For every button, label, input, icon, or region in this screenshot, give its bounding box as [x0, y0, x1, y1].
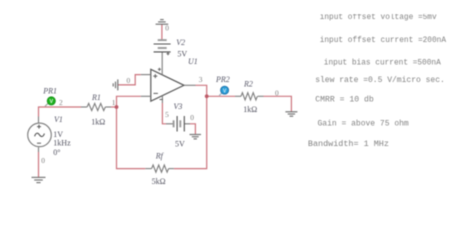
ground below V1 [32, 177, 46, 182]
svg-text:V1: V1 [54, 115, 63, 124]
svg-text:0: 0 [190, 113, 194, 122]
plus mark inside [153, 74, 157, 78]
svg-text:0: 0 [165, 23, 169, 32]
minus mark inside [154, 92, 158, 94]
wire ground to noninverting input [118, 75, 141, 85]
svg-text:0: 0 [127, 76, 131, 85]
plus mark supply [158, 68, 161, 71]
svg-text:CMRR = 10 db: CMRR = 10 db [315, 94, 374, 104]
battery V2 [154, 40, 171, 55]
wire junction to R2 [207, 95, 235, 97]
junction node 1 dot [115, 105, 119, 109]
output pin [184, 84, 196, 86]
svg-text:PR1: PR1 [42, 87, 57, 96]
svg-text:0°: 0° [53, 148, 60, 157]
svg-text:1kΩ: 1kΩ [243, 105, 257, 114]
source V1 [28, 117, 52, 153]
svg-text:5V: 5V [175, 139, 185, 148]
svg-text:R1: R1 [91, 93, 101, 102]
wire V1 bottom to ground [38, 152, 40, 177]
ground below R2 [285, 112, 297, 116]
svg-text:input offset voltage =5mv: input offset voltage =5mv [320, 14, 437, 22]
wire feedback down and to Rf [117, 107, 146, 169]
input pin + [141, 74, 151, 76]
svg-text:5V: 5V [177, 49, 187, 58]
svg-text:V: V [223, 88, 227, 94]
svg-text:Rf: Rf [155, 152, 165, 161]
svg-text:1kHz: 1kHz [53, 139, 71, 148]
neg supply pin [161, 96, 163, 103]
svg-text:5: 5 [165, 110, 169, 119]
svg-text:Gain = above 75 ohm: Gain = above 75 ohm [318, 120, 409, 129]
svg-text:3: 3 [199, 75, 203, 84]
svg-text:V: V [49, 99, 53, 105]
wire Rf right up to output junction [174, 96, 207, 168]
svg-text:V3: V3 [174, 102, 183, 111]
wire R2 to ground corner [264, 96, 292, 111]
ground right of V3 [190, 135, 202, 139]
wire top ground to V2 [161, 24, 163, 40]
resistor Rf [145, 165, 174, 172]
svg-text:R2: R2 [243, 79, 253, 88]
wire R1 to node 1 junction [111, 106, 117, 108]
pos supply pin [161, 52, 163, 75]
minus mark supply [160, 99, 163, 101]
svg-text:input bias current =500nA: input bias current =500nA [324, 59, 441, 67]
svg-text:1kΩ: 1kΩ [91, 117, 105, 126]
svg-text:V2: V2 [176, 38, 185, 47]
svg-text:Bandwidth= 1 MHz: Bandwidth= 1 MHz [308, 139, 389, 149]
svg-text:1: 1 [112, 98, 116, 107]
ground left of opamp [113, 79, 118, 90]
resistor R2 [235, 93, 264, 100]
ground top (net 0) [156, 20, 169, 25]
input pin - [141, 95, 151, 97]
svg-text:1V: 1V [53, 130, 63, 139]
battery V3 [166, 116, 190, 132]
svg-text:0: 0 [41, 156, 45, 165]
wire V3 to ground [190, 124, 195, 135]
op-amp U1 [141, 52, 196, 103]
wire opamp neg supply to V3 [162, 103, 166, 124]
wire node1 up to inverting input [117, 96, 141, 107]
svg-text:0: 0 [275, 89, 279, 98]
probe PR2 [219, 86, 228, 95]
wire opamp output to junction [196, 85, 207, 96]
wire V1 top to R1 [39, 107, 82, 117]
svg-text:2: 2 [59, 98, 63, 107]
svg-text:input offset current =200nA: input offset current =200nA [320, 37, 447, 45]
junction output dot [205, 94, 209, 98]
svg-text:PR2: PR2 [215, 75, 230, 84]
resistor R1 [81, 103, 111, 110]
svg-text:slew rate =0.5 V/micro sec.: slew rate =0.5 V/micro sec. [315, 76, 445, 85]
svg-text:U1: U1 [188, 57, 198, 66]
svg-text:5kΩ: 5kΩ [152, 177, 166, 186]
probe PR1 [45, 97, 55, 107]
